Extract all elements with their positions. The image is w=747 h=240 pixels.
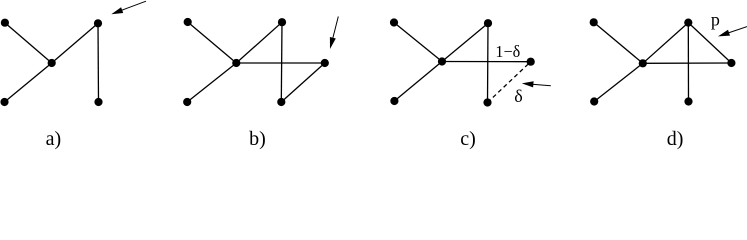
node a-C	[48, 59, 56, 67]
node b-BL	[183, 98, 191, 106]
svg-text:b): b)	[249, 128, 266, 150]
node a-TL	[1, 19, 9, 27]
node b-TL	[184, 18, 192, 26]
wire d: edge T-B	[687, 23, 689, 102]
wire a: edge C-T	[52, 23, 98, 63]
node d-C	[639, 59, 647, 67]
wire b: edge C-T	[236, 22, 282, 63]
node b-B	[277, 98, 285, 106]
node c-BL	[390, 97, 398, 105]
svg-text:d): d)	[667, 128, 684, 150]
node b-T	[278, 18, 286, 26]
svg-text:1−δ: 1−δ	[495, 42, 520, 61]
wire c: edge T-B	[487, 23, 490, 102]
wire c: edge C-T	[442, 23, 488, 61]
wire c: edge TL-C	[394, 23, 442, 62]
svg-text:δ: δ	[514, 86, 522, 106]
node d-BL	[590, 97, 598, 105]
wire b: edge BL-C	[187, 63, 236, 102]
wire b: edge TL-C	[188, 22, 237, 63]
node a-T	[94, 19, 102, 27]
node a-BL	[0, 98, 8, 106]
wire d: edge C-T	[643, 23, 689, 64]
node c-TL	[390, 18, 398, 26]
arrow d (points to edge T-R)	[718, 27, 747, 37]
wire a: edge BL-C	[5, 63, 52, 102]
wire b: edge T-B	[280, 22, 283, 102]
svg-text:p: p	[711, 10, 720, 30]
node d-T	[684, 19, 692, 27]
node c-R	[527, 58, 535, 66]
wire c: edge BL-C	[394, 62, 442, 102]
node c-T	[484, 19, 492, 27]
node b-C	[232, 59, 240, 67]
wire a: edge T-B	[97, 23, 100, 102]
wire c: edge C-R	[442, 61, 531, 63]
svg-text:c): c)	[460, 128, 476, 150]
node c-C	[438, 57, 446, 65]
node d-R	[727, 59, 735, 67]
arrow a (points to node a-T)	[111, 1, 146, 14]
node c-B	[483, 98, 491, 106]
arrow b (points to node b-R)	[330, 17, 338, 50]
wire d: edge C-R	[643, 62, 732, 64]
node b-R	[321, 59, 329, 67]
wire d: edge TL-C	[594, 22, 643, 63]
wire b: edge C-R	[236, 62, 324, 64]
node d-B	[684, 97, 692, 105]
wire b: edge B-R	[281, 63, 325, 102]
arrow c (points to dashed edge)	[522, 81, 551, 87]
node d-TL	[590, 18, 598, 26]
wire d: edge T-R	[688, 23, 731, 63]
wire c: dashed edge B-R	[488, 62, 531, 103]
svg-text:a): a)	[46, 128, 62, 150]
wire a: edge TL-C	[5, 23, 52, 63]
wire d: edge BL-C	[594, 63, 643, 101]
node a-B	[94, 98, 102, 106]
